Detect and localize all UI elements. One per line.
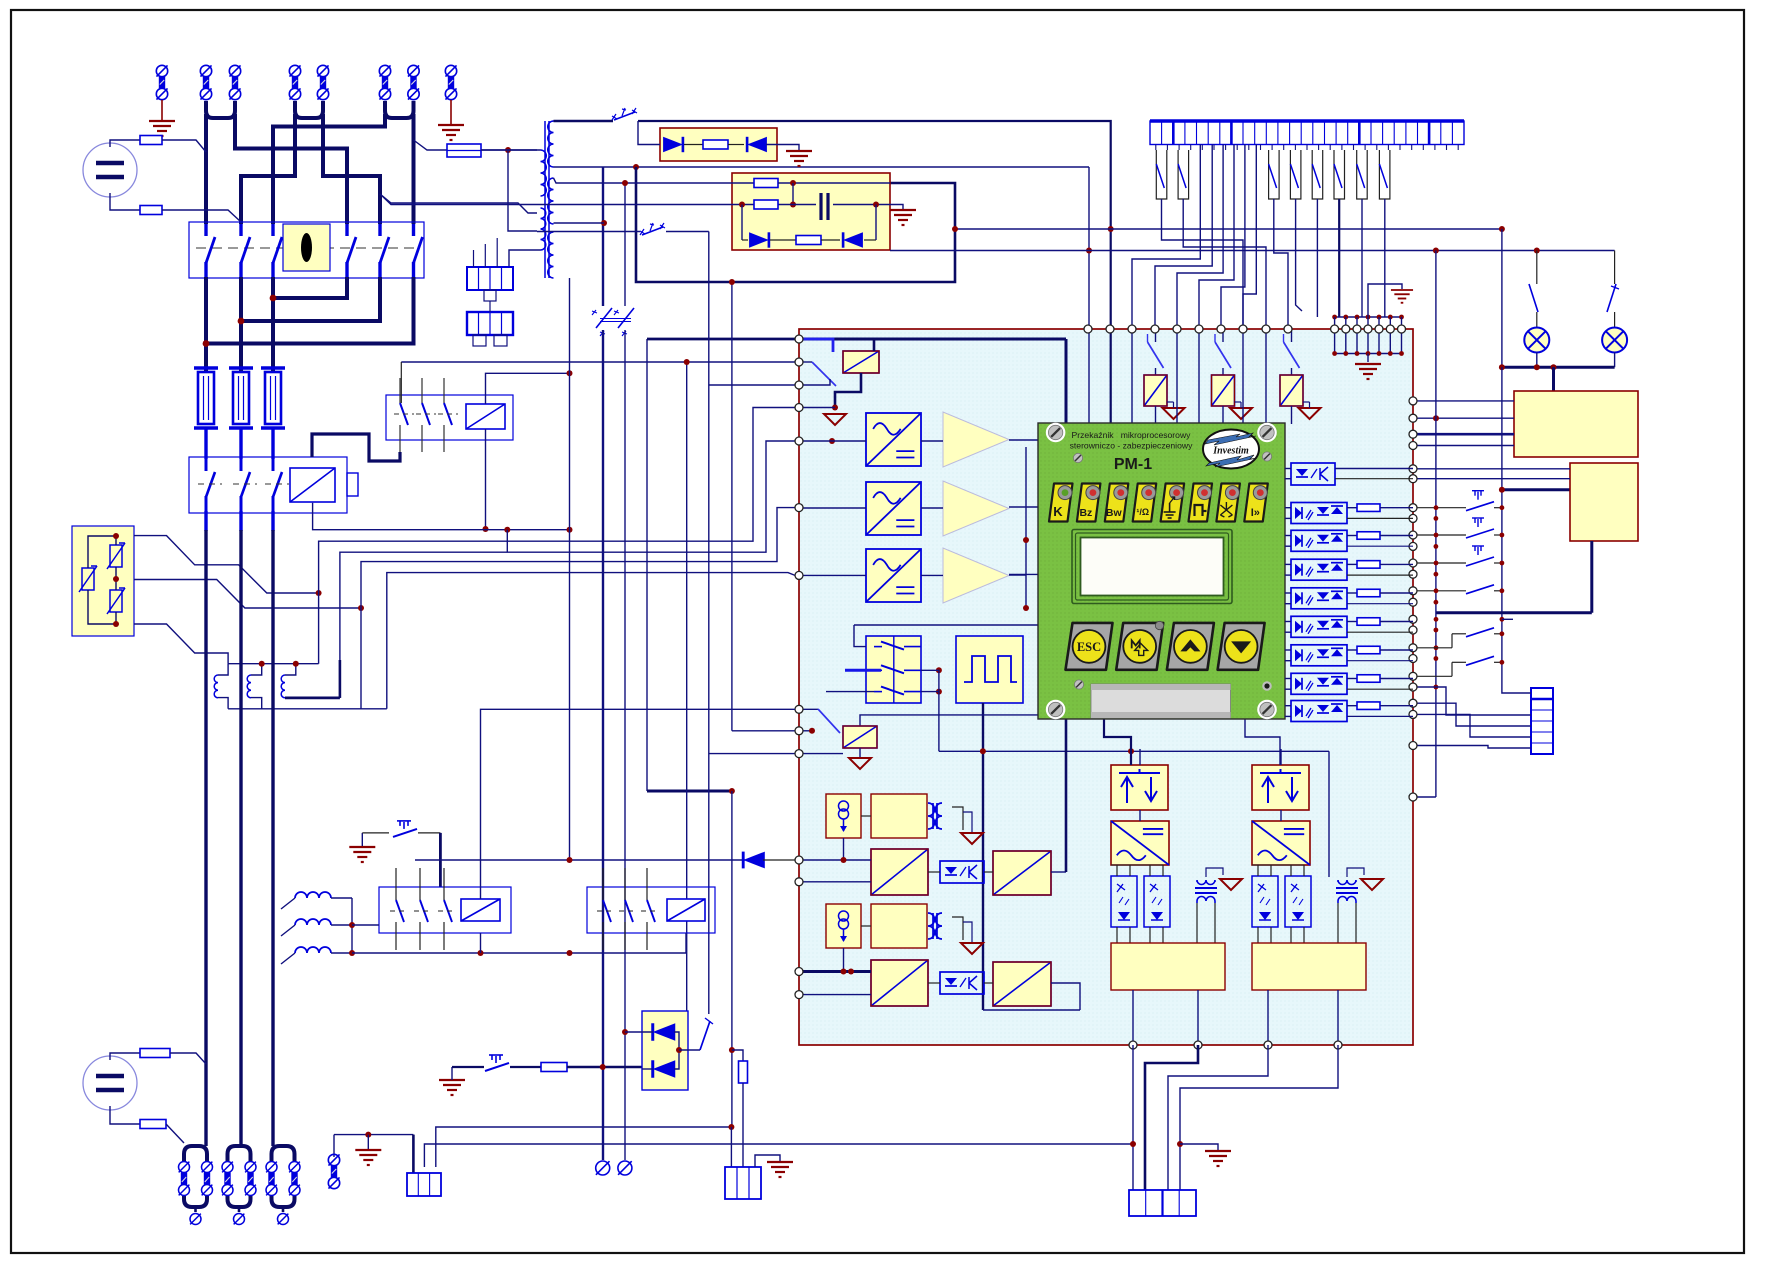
wire V1502 low [1501,490,1503,686]
wire K11 coil link [860,715,1038,726]
resistor RO3 [1357,532,1380,540]
input terminal x413.5 [408,65,419,76]
node K10 [832,405,838,411]
wire term1110 down [1110,329,1112,424]
wire L2 bottom [251,698,262,709]
wire bundle 1 [319,408,795,664]
inductor L2 [247,675,251,698]
wire K2 pole1 stub [400,362,402,403]
key box [283,224,330,271]
ground S5 [439,1080,465,1095]
svg-text:Przekaźnik mikroprocesorowy: Przekaźnik mikroprocesorowy [1072,430,1192,440]
current transformer loop x227.5 [228,1146,251,1162]
relay group x1155.5 [1155,329,1157,342]
wire K2 coil down [485,429,487,529]
terminal 625 [618,1161,632,1175]
rectifier box D1 [660,128,777,161]
connector block X5 [725,1167,761,1199]
wire K10 gnd [835,373,861,408]
switch S6 [700,1021,710,1050]
diode D2b [843,232,863,247]
wire RV mid [115,567,117,590]
ground arrow x1223 [1230,408,1252,419]
wire to S6 [679,1049,700,1051]
wire X2b [484,244,486,267]
switch pole x206 [204,224,207,236]
wire phase x241 lower [239,530,242,1146]
wire contact4 [1296,199,1302,311]
ground arrow [961,833,983,844]
current transformer loop x184 [184,1146,207,1162]
wire L2 top [251,664,262,675]
adc A1 [871,849,928,895]
resistor RO9 [1357,702,1380,710]
wire iso B gnd [963,922,972,942]
ground [438,125,464,140]
connector block X7 [1129,1190,1196,1216]
screw TL [1046,423,1066,443]
wire strip feed4 [1414,714,1531,737]
node row2c [739,202,745,208]
PM-1 front panel [1038,423,1285,719]
switch pole x273 [271,224,274,236]
wire comb 1212.2 [1155,145,1212,330]
control switch row y647.8 [1414,647,1452,649]
node V731 [729,279,735,285]
resistor RO5 [1357,589,1380,597]
node K2 [483,526,489,532]
wire G2 plus [110,1053,140,1060]
wire S1 a [362,832,389,834]
fuse F x273 [261,366,285,370]
keypad button 4 [1218,623,1265,670]
push button S5 [485,1055,509,1071]
connector block X4 [407,1173,441,1196]
wire A in1 [799,859,871,861]
wire V708 [708,232,710,1015]
wire comb 1200.3 [1132,145,1200,330]
wire dist y250 [890,250,1615,252]
wire out pin x1268 [1267,990,1269,1045]
wire dist y229 [955,228,1502,230]
node out1 [1130,1141,1136,1147]
wire aux 231 b [666,231,709,233]
wire return to winding 2 [380,194,537,213]
keypad button 3 [1167,623,1214,670]
wire V686 [686,362,688,1011]
wire bus gnd [1368,284,1402,317]
wire term1089 down [1088,329,1090,424]
wire R9 bottom [742,1083,744,1167]
wire H2 out [1614,353,1616,368]
wire R2 out [1590,541,1593,613]
wire K2 coil top [486,373,570,404]
screw small TL [1073,453,1082,462]
wire row1-row2 [792,183,794,205]
wire S5 a [452,1066,484,1068]
LCD display [1072,530,1232,604]
switch pole x241 [239,224,242,236]
node main-dist [1108,226,1114,232]
input relay K10 [803,339,833,352]
ground arrow out x1111 [1220,879,1242,890]
varistor RV1 [79,566,97,592]
fuse F4 [447,144,481,157]
wire R1 feed [1552,367,1555,391]
jumper U 206-235 [206,101,235,118]
Investim logo [1203,430,1259,469]
ground X6 [355,1150,381,1165]
pulse transformer x1111 [1195,880,1217,903]
wire contactor out x206 [204,511,207,531]
wire L1 top [218,664,228,675]
wire K3 coil down [480,933,482,953]
screw BR [1257,700,1277,720]
wire D1 out [766,145,799,151]
wire X2c [496,238,498,267]
wire return 3 drop [412,114,416,224]
wire V647 jog [647,790,732,793]
wire out3 [1168,1045,1268,1190]
K2 pole x400 [399,378,401,403]
wire switchbox link [921,670,939,751]
aux contact x1312.2 [1312,150,1323,199]
wire RV bottom [88,590,116,624]
wire comb 1244.9 [1221,145,1245,330]
wire R2 in 1 [1414,468,1570,470]
wire T1 sec2 bottom [554,222,605,224]
wire out2 [1145,1045,1198,1190]
wire out pin x1198 [1197,990,1199,1045]
optocoupler U4 [1291,559,1347,580]
disconnector S2 [612,108,637,120]
K11 coil [843,726,877,748]
ground [1355,364,1381,379]
wire fuse out x206 [204,428,207,459]
wire L4 in [281,898,295,909]
wire iso A gnd [963,812,972,832]
opto B [940,972,984,994]
wire fuse out x241 [239,428,242,459]
ground arrow x1155.5 [1163,408,1185,419]
wire contact1 [1162,199,1244,329]
wire aux 231 a [537,231,640,233]
terminal comb X10 [1150,121,1464,145]
node row2a [790,202,796,208]
wire return1 join [273,277,347,298]
wire RV1 out [134,536,319,593]
relay group x1291.5 [1291,329,1293,342]
wire G1 plus [110,140,140,147]
wire V1502 mid [1501,367,1503,490]
resistor RO6 [1357,618,1380,626]
connector block X2 [467,267,513,290]
wire contact2 [1183,199,1266,329]
push button S1 [393,821,417,837]
wire V603 b [602,330,604,1160]
isolation transformer A [928,803,942,829]
wire swbox row2 [845,669,881,672]
node L2 return [238,318,245,325]
wire opto row 6 out [1347,621,1357,623]
wire V603 a [602,167,604,306]
wire ch in y441 [799,440,866,442]
wire contact6 [1338,199,1340,317]
wire panel to IO A [1104,719,1131,765]
inductor L5 [295,919,331,925]
wire strip feed2 [1414,687,1531,715]
optocoupler U9 [1291,701,1347,722]
wire sqw out [982,703,984,1010]
wire A out [1051,871,1066,873]
control switch row y507.7 [1414,507,1466,509]
wire module top bus [803,338,1066,341]
wire contact7 [1361,199,1363,317]
screw small TR [1262,452,1271,461]
diode D1a [663,137,683,152]
wire U1 a [1335,468,1413,470]
main switch block Q1 [189,222,424,278]
wire phase x273 lower [271,530,274,1146]
wire to trafo B [1328,751,1330,877]
wire R1 in y418.2 [1414,417,1514,419]
wire X7 gnd [1180,1144,1218,1150]
node row1 [790,180,796,186]
wire L6 in [281,953,295,964]
optocoupler U7 [1291,645,1347,666]
relay output box R2 [1570,463,1638,541]
node L3 return [270,295,277,302]
node T1a [633,164,639,170]
ground [1391,290,1413,303]
wire R2 return [1436,611,1592,614]
opto A [940,861,984,883]
aux contact x1156.3 [1156,150,1167,199]
wire opto row 5 out [1347,592,1357,594]
wire contactor out x273 [271,511,274,531]
wire V1089 [1088,167,1090,329]
node RV2 [113,576,119,582]
input terminal x385 [379,65,390,76]
wire Vbus1436 [1435,251,1437,798]
resistor R11 [140,1120,166,1129]
wire B in1 [799,970,871,973]
output terminal box x1252 [1252,943,1366,990]
wire bus y751 [939,750,1329,752]
wire out1 [1132,1045,1134,1190]
ground [767,1162,793,1177]
adc A2 [993,851,1051,895]
wire R9 top [732,1050,743,1061]
wire tap winding bottom [508,150,537,231]
svg-text:Investim: Investim [1212,446,1249,457]
wire fuse out x273 [271,428,274,459]
wire return 2 drop [323,114,380,224]
wire V1502 upper [1501,229,1503,367]
wire opto row 2 out [1347,507,1357,509]
LED button 1 [1049,484,1073,522]
relay K3 [379,887,511,933]
wire R1 in y445.5 [1414,445,1514,447]
optocoupler U2 [1291,503,1347,524]
cluster bus [1335,353,1402,355]
keypad button 2 [1116,623,1163,670]
PSU filter box [732,173,890,250]
wire main top run [638,121,1111,329]
current source box A [826,794,861,838]
contactor K1 [189,457,347,513]
wire G2 minus [110,1106,140,1124]
wire contact5 [1316,199,1318,317]
wire S1 b [418,832,440,834]
node jog [729,788,735,794]
wire K1-K2 link [312,434,400,461]
wire phase x206 lower [204,530,207,1146]
terminal 603 [596,1161,610,1175]
optocoupler U8 [1291,673,1347,694]
ground [890,210,916,225]
node F4 out [505,147,511,153]
wire PSU gnd [890,205,903,210]
wire ch out y441 [1009,439,1038,441]
node row1 in [829,438,835,444]
wire Vbus1436 end [1413,796,1436,798]
amplifier ch y413 [943,412,1009,467]
wire L3 top [285,664,296,675]
node V1089 [1086,248,1092,254]
wire X5 gnd [755,1155,780,1167]
wire to winding [508,149,537,151]
node D4 [622,1029,628,1035]
wire earth left [161,100,163,120]
control switch row y563 [1414,562,1466,564]
wire contact8 [1384,199,1386,317]
node V603 [601,220,607,226]
wire term731 feed [732,730,795,732]
svg-text:¹/Ω: ¹/Ω [1136,507,1149,517]
amplifier ch y549 [943,548,1009,603]
isolation transformer B [928,913,942,939]
LED button 4 [1133,484,1157,522]
svg-text:Bz: Bz [1079,507,1092,519]
wire R2 in 2 [1414,478,1570,480]
K2 pole x444 [443,378,445,403]
LED button 8 [1244,484,1268,522]
protection module enclosure [799,329,1413,1045]
wire ch out y508 [1009,506,1038,508]
resistor R1 [140,136,162,145]
switch pole x347 [345,224,348,236]
jumper U 295-323 [295,101,323,118]
wire X6 bus [334,1134,413,1136]
input terminal x235 [229,65,240,76]
lamp H1 [1524,328,1549,353]
converter ch y549 [866,549,921,602]
wire K4 coil down [685,933,687,953]
wire bundle 3 [361,508,795,709]
ground arrow [961,943,983,954]
resistor R6 [796,236,821,245]
relay K11 [799,708,818,710]
wire L3 riser [339,660,342,698]
wire term385 feed [709,384,795,386]
filter box A [871,794,927,838]
binary IO box x1111 [1111,765,1168,810]
resistor RO4 [1357,561,1380,569]
wire D1 in [638,121,660,145]
ground arrow x1291.5 [1299,408,1321,419]
wire H1 out [1536,353,1538,368]
wire S1 gnd [361,833,363,846]
ground [349,847,375,862]
ground arrow K11 [849,758,871,769]
K1 pole x241 [240,459,243,471]
screw TR [1257,423,1277,443]
jumper U 385-413.5 [385,101,414,118]
wire V731 upper [731,282,733,731]
wire bus y1144 [424,1144,1133,1167]
aux contact x1178.1 [1178,150,1189,199]
wire term339 feed [647,338,795,341]
wire bundle 4 [387,573,795,709]
DC source G1 [83,143,137,197]
wire phase L1 drop [204,114,208,224]
wire K10 top [873,339,876,351]
node row2b [873,202,879,208]
wire out4 [1180,1045,1338,1190]
wire swbox row3 [826,691,874,693]
node y229 left [952,226,958,232]
wire K3 coil riser [481,709,796,899]
wire R11 out [166,1124,184,1143]
wire lamps bus [1502,366,1615,369]
wire comb 1234 [1199,145,1234,330]
aux contact x1290.4 [1290,150,1301,199]
node bus right [1433,248,1439,254]
wire T1 sec1 bottom [554,166,1090,168]
switch group box [866,636,921,703]
wire to X5 [730,1127,732,1167]
screw small BL [1074,680,1083,689]
resistor R9 [739,1061,748,1083]
wire row1 [554,178,755,183]
wire contactor out x241 [239,511,242,531]
resistor R4 [754,179,778,188]
wire D4-D5 [674,1032,679,1069]
terminal strip X11 [1531,688,1553,754]
wire sqw to B out [983,1009,1080,1011]
ground [786,151,812,166]
varistor RV3 [107,588,125,614]
varistor RV2 [107,543,125,569]
aux contact x1379.4 [1379,150,1390,199]
module terminals top edge [1084,325,1092,333]
K1 pole x206 [205,459,208,471]
control switch row y590.8 [1414,590,1466,592]
node RV3 [113,621,119,627]
square wave generator [956,636,1023,703]
wire inductor bottom bus [228,708,387,710]
filter box B [871,904,927,948]
wire to F4 [414,140,448,150]
wire V625 b [624,330,626,1160]
wire K1 coil bus [313,503,570,530]
lamp H2 [1602,328,1627,353]
connector block X3 [467,312,513,335]
wire row2 [380,194,816,205]
lamp branch 1 [1534,248,1540,254]
control switch row y535 [1414,534,1466,536]
